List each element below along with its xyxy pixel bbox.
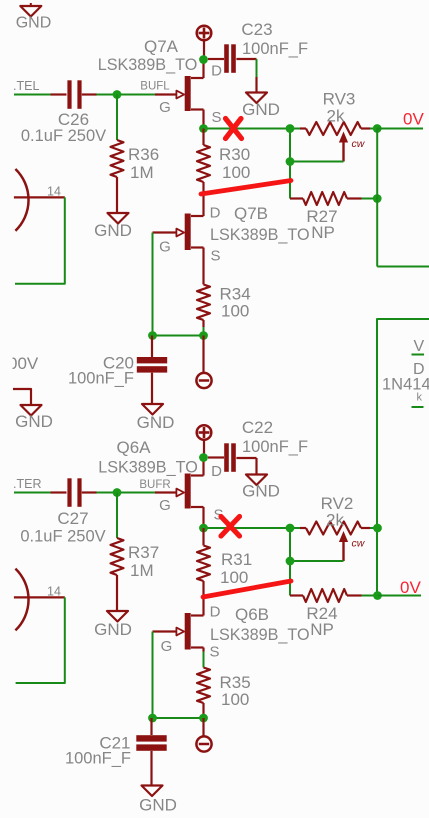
label RV3 [323, 90, 356, 126]
resistor R27 [290, 192, 362, 205]
wire RV2 wiper [290, 560, 344, 562]
svg-text:LSK389B_TO: LSK389B_TO [98, 56, 198, 74]
wire RV3 left [289, 129, 291, 199]
label C27 [57, 509, 88, 528]
wire right box corner [377, 319, 429, 596]
label cw RV2 [352, 538, 366, 550]
svg-text:S: S [210, 248, 220, 265]
svg-text:100nF_F: 100nF_F [65, 750, 131, 768]
tube envelope arc (bottom) [15, 569, 28, 631]
annotation X top [226, 119, 242, 139]
pin D Q6B [210, 604, 221, 621]
label Q7A [144, 37, 179, 56]
label R34 [220, 285, 251, 321]
label R37 [128, 543, 159, 580]
power -V (bottom block) [196, 718, 211, 752]
resistor R30 [197, 129, 210, 217]
ground C21 [139, 786, 177, 815]
annotation X bottom [221, 517, 240, 537]
wire R27 right [362, 198, 378, 200]
net label 00V [6, 354, 39, 373]
label R24 [306, 604, 337, 639]
wire Q7B drain [191, 215, 204, 217]
svg-text:Q6B: Q6B [235, 605, 269, 624]
svg-text:C27: C27 [57, 509, 88, 528]
wire Q6A drain [191, 458, 204, 476]
value LSK389B_TO (Q6A) [98, 459, 198, 477]
wire 0V top [377, 128, 423, 130]
svg-text:NP: NP [311, 223, 335, 242]
svg-text:D: D [211, 63, 222, 80]
wire source node [204, 128, 301, 130]
wire BUFL right segment [97, 94, 156, 96]
wire RV3 wiper [290, 161, 344, 163]
power +V (Q6A) [197, 425, 212, 453]
wire 0V bottom [378, 595, 422, 597]
pin S Q6B [209, 644, 219, 661]
svg-text:R37: R37 [128, 543, 159, 562]
svg-text:G: G [159, 99, 171, 116]
wire Q7B source [191, 248, 204, 285]
svg-text:GND: GND [15, 412, 53, 431]
ground C23 [242, 77, 280, 119]
value 100nF_F (C22) [242, 438, 308, 456]
wire Q6B source [191, 648, 204, 652]
label C20 [103, 354, 134, 373]
pin S Q7A [211, 109, 221, 126]
pin D Q7A [211, 63, 222, 80]
label R31 [220, 550, 252, 587]
wire C23 to ground [256, 59, 258, 77]
pin G Q7A [159, 99, 171, 116]
label C22 [242, 418, 273, 437]
svg-text:100nF_F: 100nF_F [242, 438, 308, 456]
capacitor C27 [51, 478, 97, 507]
svg-text:cw: cw [352, 138, 366, 150]
wire RV2 left [289, 528, 291, 596]
ground C22 [242, 458, 280, 501]
junction R27 right [373, 194, 382, 203]
wire RV2 right [370, 527, 378, 529]
value 0.1uF 250V [21, 127, 106, 145]
wire pin14 L (bottom) [16, 597, 65, 683]
svg-text:100: 100 [221, 302, 249, 321]
svg-text:D: D [211, 463, 222, 480]
transistor Q6B [153, 613, 191, 650]
power -V (top block) [196, 336, 211, 389]
pin 14 (top) [14, 185, 65, 199]
svg-text:LSK389B_TO: LSK389B_TO [98, 459, 198, 477]
svg-text:G: G [159, 239, 171, 256]
pin G Q6A [159, 497, 171, 514]
capacitor C26 [51, 80, 97, 109]
svg-text:100nF_F: 100nF_F [68, 370, 134, 388]
pin 14 (bottom) [14, 585, 65, 599]
junction R34 bottom [199, 331, 208, 340]
label R36 [128, 145, 159, 182]
svg-text:GND: GND [242, 100, 280, 119]
svg-text:Q7A: Q7A [144, 37, 179, 56]
net label BUFL [140, 81, 170, 93]
wire BUFR right segment [97, 492, 156, 494]
wire RV3 right [370, 128, 377, 130]
svg-text:Q6A: Q6A [116, 438, 151, 457]
capacitor C22 [208, 443, 257, 472]
pin S Q6A [213, 507, 223, 524]
junction gate node Q6B [148, 714, 157, 723]
net label BUFR [139, 479, 170, 491]
wire Q7B gate down [152, 233, 154, 336]
diode value 1N41xx [382, 376, 429, 394]
svg-text:NP: NP [310, 620, 334, 639]
svg-text:LSK389B_TO: LSK389B_TO [210, 226, 310, 244]
value LSK389B_TO (Q6B) [210, 626, 310, 644]
junction wiper RV2 [286, 557, 295, 566]
value 100nF_F (C21) [65, 750, 131, 768]
svg-text:GND: GND [94, 221, 132, 240]
wire Q6B gate down [152, 632, 154, 719]
wire Q6B drain [191, 614, 204, 616]
pin G Q7B [159, 239, 171, 256]
label R27 [306, 207, 337, 242]
net label 0V top [403, 110, 424, 129]
svg-text:100: 100 [221, 690, 249, 709]
wire Q6A source [191, 507, 204, 528]
svg-text:0V: 0V [400, 578, 421, 597]
net label TEL [13, 79, 39, 93]
value LSK389B_TO (Q7A) [98, 56, 198, 74]
junction drain node Q6A [199, 453, 208, 462]
ground left [15, 405, 53, 431]
svg-text:k: k [417, 392, 423, 404]
wire source node Q6A [204, 527, 301, 529]
junction R24 right [373, 591, 382, 600]
svg-text:BUFL: BUFL [140, 81, 170, 93]
svg-text:LSK389B_TO: LSK389B_TO [210, 626, 310, 644]
potentiometer RV2 [300, 522, 370, 562]
label Q7B [234, 204, 268, 223]
svg-text:V: V [414, 338, 425, 355]
svg-text:1M: 1M [130, 561, 154, 580]
pin G Q6B [161, 638, 173, 655]
wire BUFR left segment [14, 492, 51, 494]
svg-text:BUFR: BUFR [139, 479, 170, 491]
svg-text:0V: 0V [403, 110, 424, 129]
pin D Q6A [211, 463, 222, 480]
power flag GND (top left) [16, 3, 52, 32]
svg-text:R30: R30 [219, 145, 250, 164]
label R30 [219, 145, 250, 182]
svg-text:0.1uF 250V: 0.1uF 250V [20, 528, 105, 546]
junction source Q6A [199, 524, 208, 533]
wire Q6B source to R35 [203, 652, 205, 668]
svg-text:2k: 2k [326, 511, 344, 530]
svg-text:GND: GND [94, 620, 132, 639]
label C21 [99, 734, 130, 753]
svg-text:Q7B: Q7B [234, 204, 268, 223]
ground C20 [137, 404, 175, 432]
label RV2 [321, 494, 354, 530]
junction gate node [148, 331, 157, 340]
capacitor C20 [137, 336, 167, 405]
resistor R36 [111, 140, 124, 213]
svg-text:D: D [210, 604, 221, 621]
wire R37 tap [116, 493, 118, 539]
svg-text:00V: 00V [8, 354, 39, 373]
pin k diode [417, 392, 423, 404]
label Q6A [116, 438, 151, 457]
resistor R24 [290, 589, 362, 602]
pin S Q7B [210, 248, 220, 265]
junction RV3 left [286, 124, 295, 133]
junction R35 bottom [199, 714, 208, 723]
svg-text:R31: R31 [221, 550, 252, 569]
junction node BUFR [113, 488, 122, 497]
svg-text:D: D [210, 205, 221, 222]
value 0.1uF 250V (C27) [20, 528, 105, 546]
svg-text:GND: GND [242, 482, 280, 501]
wire BUFL left segment [14, 94, 51, 96]
wire R24 right [362, 595, 378, 597]
wire pin14 L (top) [15, 197, 65, 283]
value 100nF_F (C23) [242, 40, 308, 58]
ground R36 [94, 213, 132, 240]
wire Q7A source [191, 110, 204, 129]
junction RV2 right [373, 524, 382, 533]
net label TER [13, 477, 41, 491]
svg-text:R36: R36 [128, 145, 159, 164]
label C26 [58, 110, 89, 129]
annotation stroke bottom [203, 581, 291, 597]
svg-text:C23: C23 [241, 20, 272, 39]
resistor R37 [111, 538, 124, 611]
svg-text:14: 14 [47, 185, 61, 199]
svg-text:0.1uF 250V: 0.1uF 250V [21, 127, 106, 145]
ground R37 [94, 611, 132, 639]
resistor R31 [197, 528, 210, 616]
wire to GND left [13, 389, 31, 405]
transistor Q6A [155, 474, 191, 509]
label C23 [241, 20, 272, 39]
junction wiper RV3 [286, 157, 295, 166]
svg-text:cw: cw [352, 538, 366, 550]
svg-text:100: 100 [220, 568, 248, 587]
svg-text:1M: 1M [130, 163, 154, 182]
value LSK389B_TO (Q7B) [210, 226, 310, 244]
svg-text:.TEL: .TEL [13, 79, 39, 93]
resistor R35 [197, 668, 210, 719]
svg-text:GND: GND [139, 796, 177, 815]
annotation stroke top [201, 181, 291, 195]
wire Q7A drain [191, 60, 204, 79]
svg-text:100nF_F: 100nF_F [242, 40, 308, 58]
resistor R34 [197, 285, 210, 336]
svg-text:GND: GND [16, 15, 52, 32]
svg-text:GND: GND [137, 413, 175, 432]
capacitor C21 [136, 718, 166, 786]
svg-text:2k: 2k [327, 107, 345, 126]
svg-text:C22: C22 [242, 418, 273, 437]
svg-text:100: 100 [222, 163, 250, 182]
wire bottom row top-block [153, 335, 204, 337]
svg-text:.TER: .TER [13, 477, 41, 491]
tube envelope arc (top) [15, 169, 28, 231]
svg-text:S: S [209, 644, 219, 661]
wire bottom row bottom-block [153, 717, 204, 719]
junction node BUFL [113, 90, 122, 99]
label Q6B [235, 605, 269, 624]
transistor Q7A [155, 76, 191, 111]
label cw RV3 [352, 138, 366, 150]
label R35 [220, 673, 251, 709]
svg-text:14: 14 [47, 585, 61, 599]
wire right stub top [377, 266, 429, 268]
junction RV3 right [373, 124, 382, 133]
junction drain node Q7A [199, 55, 208, 64]
svg-text:G: G [159, 497, 171, 514]
power +V (Q7A) [197, 26, 212, 56]
diode D reference [413, 361, 425, 378]
wire right vertical top [376, 129, 378, 267]
capacitor C23 [208, 44, 257, 73]
transistor Q7B [153, 214, 191, 251]
wire R36 tap [116, 95, 118, 141]
svg-text:G: G [161, 638, 173, 655]
pin D Q7B [210, 205, 221, 222]
potentiometer RV3 [300, 122, 370, 162]
value 100nF_F (C20) [68, 370, 134, 388]
junction source Q7A [199, 124, 208, 133]
net stub V (right) [412, 338, 425, 355]
svg-text:S: S [211, 109, 221, 126]
net label 0V bottom [400, 578, 421, 597]
net stub k (right) [412, 406, 424, 408]
junction RV2 left [286, 524, 295, 533]
